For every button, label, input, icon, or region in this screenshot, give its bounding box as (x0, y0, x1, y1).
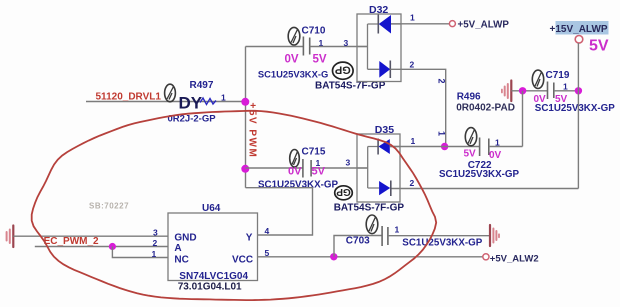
svg-text:5V: 5V (589, 38, 609, 55)
capacitor C719 (548, 82, 554, 100)
wire ground to U64 GND pin 3 (13, 235, 168, 237)
wire +5VPWM to C710 (246, 46, 304, 48)
svg-text:SB:70227: SB:70227 (89, 202, 129, 211)
svg-text:A: A (174, 243, 181, 254)
svg-text:DY: DY (179, 94, 203, 113)
svg-text:SC1U25V3KX-GP: SC1U25V3KX-GP (439, 169, 520, 180)
wire D35 pin2 to +15V (391, 188, 579, 190)
ground symbol near R496 (502, 81, 511, 102)
svg-text:GP: GP (336, 186, 351, 197)
svg-text:C719: C719 (546, 70, 570, 81)
diode D32 inner common wire (357, 24, 379, 69)
diode D35 box (357, 134, 400, 202)
svg-text:73.01G04.L01: 73.01G04.L01 (178, 281, 242, 292)
diode D32 top diode (378, 15, 401, 34)
svg-text:GP: GP (335, 64, 351, 76)
diode D32 bottom diode (379, 61, 390, 79)
wire C703 branch (334, 236, 382, 257)
wire junction to C722 (445, 146, 480, 148)
diode D35 GP stamp (335, 186, 353, 200)
svg-text:C703: C703 (346, 235, 370, 246)
svg-text:C710: C710 (302, 26, 326, 37)
svg-text:1: 1 (411, 136, 416, 146)
terminal +15V_ALWP (575, 36, 583, 44)
svg-text:1: 1 (221, 93, 226, 103)
junction R496/D35pin1/C722 (441, 143, 448, 150)
capacitor C715 variant ellipse mark (290, 150, 300, 168)
capacitor C715 (303, 159, 311, 178)
annotation red ellipse (32, 111, 437, 300)
svg-text:5V: 5V (312, 166, 326, 178)
wire +5V PWM vertical (245, 47, 247, 188)
svg-text:BAT54S-7F-GP: BAT54S-7F-GP (334, 203, 405, 214)
junction VCC/C703 (330, 253, 337, 260)
svg-text:1: 1 (152, 249, 157, 259)
wire +15V vertical (577, 43, 579, 189)
svg-text:SC1U25V3KX-GP: SC1U25V3KX-GP (258, 179, 339, 190)
wire VCC to +5V_ALW2 (258, 256, 483, 258)
svg-text:4: 4 (265, 226, 270, 236)
svg-text:3: 3 (344, 38, 349, 48)
diode D32 GP stamp (332, 62, 353, 79)
svg-text:1: 1 (410, 13, 415, 23)
svg-text:5V: 5V (313, 54, 327, 66)
ground symbol EC_PWM (7, 226, 14, 248)
capacitor C710 (303, 37, 309, 56)
svg-text:+5V_ALW2: +5V_ALW2 (490, 254, 539, 265)
svg-text:5V: 5V (464, 149, 477, 160)
wire C715 to D35 pin 3 (311, 167, 368, 169)
svg-text:C715: C715 (302, 147, 326, 158)
svg-text:2: 2 (410, 178, 415, 188)
net +15V_ALWP highlight (556, 21, 609, 35)
svg-text:0V: 0V (285, 54, 299, 66)
wire D32 pin1 to +5V_ALWP (391, 23, 450, 25)
terminal +5V_ALWP (449, 21, 455, 27)
svg-text:2: 2 (410, 60, 415, 70)
svg-text:1: 1 (395, 225, 400, 235)
terminal +5V_ALW2 (483, 254, 489, 260)
wire C703 to ground (388, 235, 490, 237)
wire C722 up to ground node (489, 91, 523, 147)
capacitor C703 variant ellipse mark (366, 215, 378, 234)
wire Y output path (246, 188, 313, 235)
svg-text:2: 2 (437, 79, 447, 84)
wire 51120_DRVL1 to R497 output (86, 101, 245, 103)
svg-text:3: 3 (153, 228, 158, 238)
svg-text:NC: NC (174, 254, 188, 265)
resistor R497 variant ellipse mark (165, 84, 176, 102)
svg-text:SC1U25V3KX-G: SC1U25V3KX-G (258, 69, 328, 80)
svg-text:VCC: VCC (232, 254, 253, 265)
svg-text:+5V_ALWP: +5V_ALWP (458, 19, 510, 30)
svg-text:1: 1 (563, 82, 568, 92)
svg-text:51120_DRVL1: 51120_DRVL1 (96, 91, 162, 102)
junction R497/+5VPWM (241, 98, 249, 106)
svg-text:0R0402-PAD: 0R0402-PAD (456, 103, 515, 114)
svg-text:R497: R497 (190, 80, 214, 91)
junction C715/+5VPWM (241, 165, 249, 173)
diode D35 inner common wire (357, 147, 379, 189)
diode D35 bottom diode (379, 181, 391, 197)
svg-text:+15V_ALWP: +15V_ALWP (550, 24, 608, 35)
diode D32 box (357, 14, 401, 82)
wire +5VPWM to C715 (246, 167, 303, 169)
svg-text:R496: R496 (457, 92, 481, 103)
svg-text:EC_PWM_2: EC_PWM_2 (44, 236, 99, 247)
svg-text:Y: Y (246, 232, 253, 243)
svg-text:1: 1 (437, 131, 447, 136)
resistor R497 zigzag (200, 98, 216, 105)
junction C722/C719/ground (519, 87, 526, 94)
junction pin2/pin1 (109, 243, 116, 250)
diode D35 top diode (378, 139, 400, 155)
op-amp U64 box (168, 213, 258, 281)
svg-text:3: 3 (346, 158, 351, 168)
junction C719/+15V (575, 87, 582, 94)
svg-text:SC1U25V3KX-GP: SC1U25V3KX-GP (535, 103, 616, 114)
svg-text:0V: 0V (288, 166, 302, 178)
wire C710 to D32 pin 3 (310, 46, 368, 48)
wire D35 pin1 to junction (390, 146, 445, 148)
wire ground to C719 (511, 90, 547, 92)
svg-text:BAT54S-7F-GP: BAT54S-7F-GP (315, 81, 386, 92)
capacitor C722 (480, 138, 489, 157)
svg-text:SC1U25V3KX-GP: SC1U25V3KX-GP (402, 237, 483, 248)
wire junction to U64 NC pin 1 (112, 247, 168, 258)
svg-text:GND: GND (174, 232, 196, 243)
capacitor C703 (382, 226, 388, 246)
wire D32 pin2 to R496 (390, 69, 445, 146)
ground symbol near C703 (490, 225, 499, 246)
capacitor C710 variant ellipse mark (288, 27, 300, 45)
svg-text:SN74LVC1G04: SN74LVC1G04 (179, 271, 248, 282)
svg-text:2: 2 (153, 238, 158, 248)
wire EC_PWM_2 to U64 A pin 2 (35, 246, 168, 248)
capacitor C722 variant ellipse mark (465, 128, 476, 146)
wire C719 to +15V (554, 90, 579, 92)
capacitor C719 variant ellipse mark (532, 70, 543, 88)
